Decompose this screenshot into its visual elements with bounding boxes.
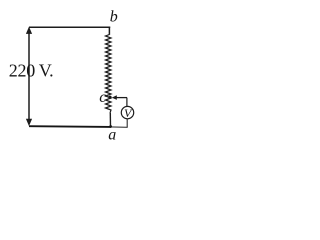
wire right bottom stub bbox=[109, 113, 111, 127]
svg-text:b: b bbox=[110, 9, 118, 26]
wire bottom rail (left thick part) bbox=[29, 125, 111, 128]
node c dot bbox=[108, 96, 111, 99]
voltmeter V1 circle bbox=[121, 106, 133, 118]
wire top rail b-side bbox=[29, 26, 110, 28]
wire voltmeter bottom bbox=[126, 119, 128, 128]
arrow from voltmeter to node c bbox=[112, 95, 127, 106]
svg-text:a: a bbox=[108, 127, 116, 144]
svg-text:c: c bbox=[99, 89, 106, 106]
resistor (zigzag b to a) bbox=[106, 35, 112, 114]
junction dot at a bbox=[109, 125, 112, 128]
220V double-headed arrow (left) bbox=[26, 27, 32, 127]
wire right top stub bbox=[108, 27, 110, 35]
wire bottom rail (right part to voltmeter) bbox=[111, 126, 128, 128]
svg-text:220 V.: 220 V. bbox=[9, 61, 54, 81]
